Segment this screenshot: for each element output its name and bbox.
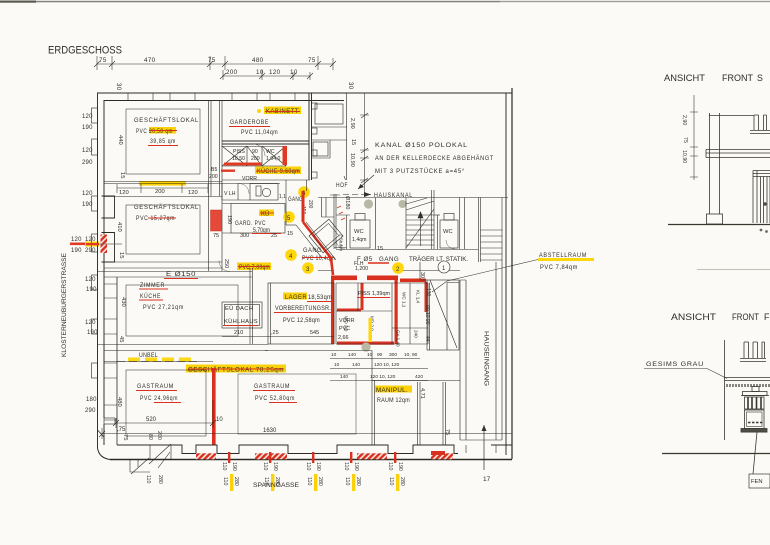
- svg-text:290: 290: [82, 160, 93, 166]
- svg-text:10: 10: [216, 417, 223, 423]
- gf window pediment: [752, 387, 759, 392]
- svg-text:2,66: 2,66: [338, 335, 349, 341]
- svg-text:GANG: GANG: [288, 197, 303, 203]
- ground line: [668, 224, 770, 226]
- svg-text:75: 75: [208, 57, 216, 64]
- svg-text:10: 10: [331, 352, 337, 358]
- svg-text:280: 280: [233, 477, 239, 486]
- room height dims rotated column: [116, 135, 128, 440]
- kanal shaft wall: [322, 198, 335, 218]
- tiny cell texts: [344, 290, 421, 347]
- wc2 room: [434, 198, 465, 250]
- svg-text:110: 110: [221, 462, 227, 470]
- svg-text:B5: B5: [211, 167, 217, 173]
- svg-text:250: 250: [223, 259, 229, 268]
- vorr cell label: [338, 318, 355, 341]
- svg-text:120: 120: [71, 237, 82, 243]
- left wall dimension labels: [71, 114, 98, 414]
- inner wall piers: [102, 196, 115, 262]
- svg-text:30: 30: [115, 83, 121, 91]
- svg-text:KL 1,4: KL 1,4: [416, 290, 421, 304]
- hauseingang corridor: [460, 262, 502, 440]
- circle 6: [298, 186, 310, 198]
- svg-text:EÜ DACH: EÜ DACH: [225, 305, 253, 312]
- upper window: [754, 115, 767, 130]
- svg-text:190: 190: [86, 287, 97, 293]
- svg-text:15: 15: [377, 246, 383, 252]
- red mark under left 120: [70, 243, 85, 246]
- door: [753, 171, 770, 224]
- svg-text:GANG: GANG: [379, 256, 399, 263]
- svg-text:RAUM 12qm: RAUM 12qm: [377, 397, 410, 404]
- svg-text:45: 45: [118, 336, 124, 342]
- svg-text:280: 280: [157, 475, 163, 484]
- gf window main pane: [745, 410, 765, 429]
- svg-text:440: 440: [117, 135, 123, 145]
- corridor GANG lines: [318, 250, 478, 271]
- svg-text:110: 110: [344, 477, 350, 485]
- svg-text:120: 120: [82, 114, 93, 120]
- svg-text:190: 190: [231, 462, 237, 471]
- svg-text:110: 110: [145, 475, 151, 483]
- svg-text:MIT 3 PUTZSTÜCKE a=45°: MIT 3 PUTZSTÜCKE a=45°: [375, 167, 465, 175]
- abstellraum label right: [538, 258, 594, 261]
- svg-text:140: 140: [348, 352, 356, 358]
- gard pvc room: [222, 204, 285, 234]
- svg-text:190: 190: [397, 462, 403, 471]
- scan top edge line: [0, 1, 500, 3]
- svg-text:SPANNGASSE: SPANNGASSE: [253, 482, 299, 489]
- svg-text:VORR: VORR: [242, 176, 257, 182]
- bottom dim lines: [99, 400, 512, 439]
- svg-text:ZIMMER: ZIMMER: [140, 282, 165, 289]
- svg-text:VORBEREITUNGSR.: VORBEREITUNGSR.: [275, 306, 331, 312]
- svg-text:ANSICHT: ANSICHT: [671, 312, 717, 322]
- svg-text:2,90: 2,90: [349, 118, 355, 129]
- svg-text:200: 200: [226, 69, 238, 76]
- kabinett label: [257, 109, 261, 113]
- wc1 room: [334, 194, 376, 249]
- geschaeftslokal 78,26 yellow: [186, 365, 286, 373]
- vestibule rotated square: [309, 219, 343, 253]
- svg-text:10: 10: [256, 69, 264, 76]
- svg-text:410: 410: [116, 222, 122, 232]
- ground line: [662, 453, 770, 455]
- LH / WC row: [222, 183, 280, 200]
- svg-text:75: 75: [444, 429, 450, 435]
- svg-text:130: 130: [425, 288, 431, 297]
- svg-text:LAGER: LAGER: [285, 294, 307, 301]
- svg-text:140: 140: [352, 362, 360, 368]
- svg-text:V LH: V LH: [224, 191, 236, 197]
- leader to fenster box: [753, 432, 757, 474]
- svg-text:120 10, 120: 120 10, 120: [370, 374, 396, 380]
- circle 3: [302, 262, 314, 274]
- svg-text:HAUSEINGANG: HAUSEINGANG: [483, 331, 490, 386]
- top dimension chain line: [94, 56, 336, 80]
- svg-text:WC: WC: [354, 229, 364, 235]
- dim chain between rooms: [117, 184, 208, 193]
- svg-text:280: 280: [355, 477, 361, 486]
- svg-text:PVC 52,80qm: PVC 52,80qm: [255, 395, 295, 402]
- svg-text:AN DER KELLERDECKE ABGEHÄNGT: AN DER KELLERDECKE ABGEHÄNGT: [375, 154, 494, 162]
- svg-text:200: 200: [155, 189, 165, 195]
- svg-text:110: 110: [387, 462, 393, 470]
- svg-text:PISS 1,39qm: PISS 1,39qm: [358, 291, 390, 297]
- elevation1 dim chain: [690, 95, 698, 180]
- svg-text:KÜCHE: KÜCHE: [140, 292, 161, 300]
- kanal leader arrow: [358, 175, 374, 189]
- left facade edge: [724, 340, 726, 440]
- svg-text:190: 190: [87, 330, 98, 336]
- room2 GESCHAEFTSLOKAL: [126, 205, 200, 254]
- svg-text:480: 480: [252, 57, 264, 64]
- svg-text:HOF: HOF: [336, 182, 348, 189]
- pilaster: [710, 113, 720, 214]
- svg-text:,75: ,75: [117, 427, 126, 433]
- svg-text:210: 210: [234, 330, 243, 336]
- svg-text:30: 30: [347, 82, 353, 90]
- svg-text:39,85 qm: 39,85 qm: [150, 138, 176, 145]
- svg-text:110: 110: [222, 477, 228, 485]
- svg-text:F: F: [764, 312, 770, 322]
- svg-text:520: 520: [146, 417, 157, 423]
- svg-text:PVC 24,96qm: PVC 24,96qm: [140, 395, 178, 402]
- circle 4: [285, 249, 297, 261]
- dark sill: [741, 429, 767, 433]
- svg-text:PVC 7,84qm: PVC 7,84qm: [540, 264, 578, 271]
- svg-text:FRONT: FRONT: [722, 73, 754, 83]
- svg-text:200: 200: [209, 174, 218, 180]
- gf window lintel: [743, 392, 768, 396]
- cornice band: [706, 150, 770, 158]
- svg-text:10: 10: [290, 69, 298, 76]
- stairs main: [406, 190, 434, 249]
- red rect left of gard: [211, 210, 222, 231]
- svg-text:KLOSTERNEUBURGERSTRASSE: KLOSTERNEUBURGERSTRASSE: [61, 253, 68, 357]
- svg-text:10, 90: 10, 90: [404, 352, 418, 358]
- G_ELEV: [644, 73, 770, 488]
- hauskanal label + arrow: [343, 194, 371, 196]
- garderobe room: [222, 93, 312, 180]
- manipul room walls: [265, 351, 460, 446]
- entrance arrow + 17: [483, 425, 485, 470]
- svg-text:KANAL Ø150 POLOKAL: KANAL Ø150 POLOKAL: [375, 142, 468, 149]
- svg-text:1,1: 1,1: [279, 194, 286, 200]
- gastraum2: [254, 383, 295, 402]
- svg-text:290: 290: [85, 248, 96, 254]
- entrance door opening: [460, 440, 502, 453]
- svg-text:VORR: VORR: [339, 318, 355, 324]
- central cell block walls: [336, 283, 428, 344]
- kitchen block cells: [222, 146, 310, 180]
- svg-text:10: 10: [334, 362, 340, 368]
- svg-text:ERDGESCHOSS: ERDGESCHOSS: [48, 45, 122, 57]
- svg-text:300: 300: [240, 233, 249, 239]
- svg-text:GESCHÄFTSLOKAL: GESCHÄFTSLOKAL: [134, 116, 199, 124]
- svg-text:120: 120: [269, 69, 281, 76]
- svg-text:190: 190: [71, 248, 82, 254]
- svg-text:180: 180: [86, 397, 97, 403]
- svg-text:10,90: 10,90: [681, 150, 687, 163]
- vert dim chain x364: [360, 93, 369, 197]
- pvc 7,00 yellow: [237, 263, 271, 271]
- svg-text:190: 190: [353, 462, 359, 471]
- cornice with dentils: [725, 378, 770, 381]
- svg-text:75: 75: [213, 233, 219, 239]
- gf window balusters: [745, 397, 765, 409]
- svg-text:ANSICHT: ANSICHT: [664, 73, 706, 83]
- black diagonals beside red: [286, 180, 336, 260]
- svg-text:280: 280: [399, 477, 405, 486]
- right stair hauseingang top: [479, 198, 503, 263]
- svg-text:15: 15: [119, 172, 125, 178]
- svg-text:25: 25: [271, 233, 277, 239]
- facade top line: [709, 115, 754, 117]
- svg-text:190: 190: [82, 202, 93, 208]
- svg-text:WC: WC: [266, 149, 275, 155]
- svg-text:GARDEROBE: GARDEROBE: [230, 119, 269, 126]
- svg-text:GARD. PVC: GARD. PVC: [235, 220, 266, 227]
- gray dots: [364, 199, 373, 208]
- svg-text:140: 140: [340, 374, 348, 380]
- kanal annotation text: [375, 142, 494, 175]
- gray dot bottom: [361, 342, 370, 351]
- svg-text:75: 75: [99, 57, 107, 64]
- svg-text:110: 110: [306, 477, 312, 485]
- svg-text:120: 120: [82, 148, 93, 154]
- svg-text:190: 190: [82, 125, 93, 131]
- svg-text:90: 90: [252, 149, 258, 155]
- svg-text:280: 280: [317, 477, 323, 486]
- fenster label box: [749, 474, 770, 488]
- svg-text:PVC: PVC: [339, 326, 350, 332]
- svg-text:WC 1,1: WC 1,1: [402, 292, 407, 308]
- cellar box bottom left: [130, 458, 150, 474]
- G_LEFTWALL: [61, 93, 128, 460]
- svg-text:120: 120: [82, 191, 93, 197]
- svg-text:430: 430: [120, 297, 126, 307]
- middle-top block rooms: [311, 93, 347, 180]
- circle 2: [392, 262, 404, 274]
- svg-text:KÜ: KÜ: [261, 211, 269, 218]
- yellow highlight on wall: [139, 181, 186, 186]
- rotated dims right of cells: [424, 288, 431, 342]
- red diagonal wall: [303, 222, 333, 275]
- svg-text:200: 200: [307, 200, 313, 209]
- rotated dims under wall: [145, 431, 163, 484]
- red ticks under windows: [228, 452, 396, 463]
- svg-text:200: 200: [251, 156, 260, 162]
- svg-text:S: S: [757, 73, 763, 83]
- faint pencil line: [697, 269, 770, 271]
- svg-text:120 10, 120: 120 10, 120: [374, 362, 400, 368]
- G_BOTTOM: [99, 88, 512, 491]
- elevation2 facade: [662, 340, 770, 474]
- svg-text:110: 110: [305, 462, 311, 470]
- garderobe right pilasters: [312, 103, 318, 178]
- G_ROOMS: [97, 93, 512, 445]
- svg-text:545: 545: [310, 330, 319, 336]
- svg-text:GASTRAUM: GASTRAUM: [254, 383, 290, 390]
- svg-text:120: 120: [188, 190, 198, 196]
- circle 1: [438, 261, 450, 273]
- svg-text:4,71: 4,71: [419, 388, 425, 399]
- svg-text:PVC 7,00qm: PVC 7,00qm: [239, 264, 270, 271]
- zimmer kueche walls: [97, 268, 268, 351]
- red divider wall gastraum: [212, 368, 216, 445]
- svg-text:110: 110: [262, 462, 268, 470]
- svg-text:GA 1,40: GA 1,40: [396, 330, 401, 347]
- courtyard south wall: [318, 197, 508, 199]
- svg-text:75: 75: [308, 57, 316, 64]
- svg-text:17: 17: [483, 476, 491, 483]
- lager room: [268, 283, 334, 344]
- window dim columns: [221, 462, 405, 486]
- svg-text:10,90: 10,90: [349, 153, 355, 167]
- svg-text:PVC 11,04qm: PVC 11,04qm: [241, 129, 278, 136]
- wall room1-garderobe vertical: [209, 100, 223, 271]
- svg-text:FEN: FEN: [751, 479, 763, 485]
- top dimension labels: [99, 57, 353, 91]
- right outer wall: [506, 88, 512, 459]
- outer left wall double line: [98, 93, 118, 460]
- svg-text:1,4qm: 1,4qm: [352, 237, 366, 243]
- abstellraum room: [420, 262, 459, 350]
- door handle: [763, 202, 766, 205]
- upper window: [744, 342, 765, 358]
- red hatched pilaster: [101, 235, 108, 254]
- svg-text:120: 120: [85, 320, 96, 326]
- svg-text:15: 15: [287, 231, 293, 237]
- svg-text:TRÄGER LT. STATIK.: TRÄGER LT. STATIK.: [409, 256, 468, 263]
- wall room1/room2: [104, 182, 222, 269]
- svg-text:ABSTELLRAUM: ABSTELLRAUM: [539, 252, 587, 259]
- red wall vertical at gang: [302, 191, 305, 222]
- svg-text:190: 190: [315, 462, 321, 471]
- svg-text:15: 15: [118, 252, 124, 258]
- svg-text:200: 200: [156, 431, 162, 440]
- svg-text:PVC 12,58qm: PVC 12,58qm: [283, 317, 320, 324]
- svg-text:WC: WC: [443, 229, 453, 235]
- svg-text:,25: ,25: [271, 330, 279, 336]
- svg-text:120: 120: [119, 190, 129, 196]
- red marks kitchen: [283, 146, 288, 165]
- svg-text:420: 420: [415, 374, 423, 380]
- svg-text:PISS: PISS: [233, 149, 245, 155]
- svg-text:290: 290: [85, 408, 96, 414]
- svg-text:120: 120: [85, 277, 96, 283]
- left wall pilasters: [92, 108, 116, 424]
- svg-text:GASTRAUM: GASTRAUM: [137, 383, 174, 390]
- left door opening with slash: [149, 444, 171, 468]
- pencil line through yellow mark: [90, 243, 122, 245]
- kueche yellow label: [255, 167, 301, 175]
- svg-text:470: 470: [144, 57, 156, 64]
- circle 5: [283, 211, 295, 223]
- svg-text:Ø180: Ø180: [344, 196, 350, 209]
- svg-text:80: 80: [147, 434, 153, 440]
- G_CENTER: [222, 276, 431, 381]
- svg-text:GESIMS GRAU: GESIMS GRAU: [646, 362, 704, 368]
- red stufen marks: [337, 206, 345, 220]
- svg-text:1,04,0: 1,04,0: [266, 156, 281, 162]
- yellow bars under windows: [230, 474, 399, 491]
- kuehlhaus: [222, 302, 262, 328]
- svg-text:1,200: 1,200: [355, 266, 368, 272]
- elevation1 facade: [668, 113, 770, 233]
- svg-text:300: 300: [389, 352, 397, 358]
- yellow+red mark under right 120: [85, 242, 99, 247]
- gastraum1: [104, 362, 213, 446]
- red hatched window openings: [196, 451, 453, 459]
- svg-text:PVC 27,21qm: PVC 27,21qm: [143, 304, 184, 311]
- svg-text:190: 190: [272, 462, 278, 471]
- room1 GESCHAEFTSLOKAL: [126, 109, 200, 174]
- svg-text:KÜHLHAUS: KÜHLHAUS: [224, 318, 258, 325]
- svg-text:75: 75: [122, 434, 128, 440]
- svg-text:MANIPUL.: MANIPUL.: [376, 387, 408, 394]
- svg-text:90: 90: [377, 352, 383, 358]
- svg-text:1630: 1630: [263, 428, 277, 434]
- dims rows under cells: [331, 352, 418, 368]
- red walls of central cell block: [331, 276, 428, 345]
- bottom wall: [110, 445, 512, 460]
- svg-text:18,53qm: 18,53qm: [308, 294, 332, 301]
- yellow bar in cells: [369, 318, 372, 342]
- G_MIDDLE: [283, 93, 594, 292]
- svg-text:75: 75: [682, 137, 688, 143]
- svg-text:18,50: 18,50: [232, 156, 245, 162]
- dims row under kuehlhaus: [234, 330, 319, 336]
- svg-text:240: 240: [414, 330, 419, 338]
- manipul labels: [375, 386, 412, 393]
- svg-text:110: 110: [388, 477, 394, 485]
- svg-text:GESCHÄFTSLOKAL 78,26qm: GESCHÄFTSLOKAL 78,26qm: [188, 366, 284, 374]
- door swing arcs: [219, 144, 455, 272]
- top outer wall: [97, 93, 512, 101]
- svg-text:2,90: 2,90: [681, 115, 687, 125]
- svg-text:110: 110: [343, 462, 349, 470]
- svg-text:15: 15: [350, 139, 356, 145]
- svg-text:480: 480: [116, 397, 122, 407]
- G_HOF: [219, 144, 455, 272]
- svg-text:190: 190: [226, 215, 232, 224]
- svg-text:GESCHÄFTSLOKAL: GESCHÄFTSLOKAL: [134, 203, 199, 211]
- svg-text:HAUSKANAL: HAUSKANAL: [374, 192, 413, 199]
- svg-text:FRONT: FRONT: [732, 312, 760, 322]
